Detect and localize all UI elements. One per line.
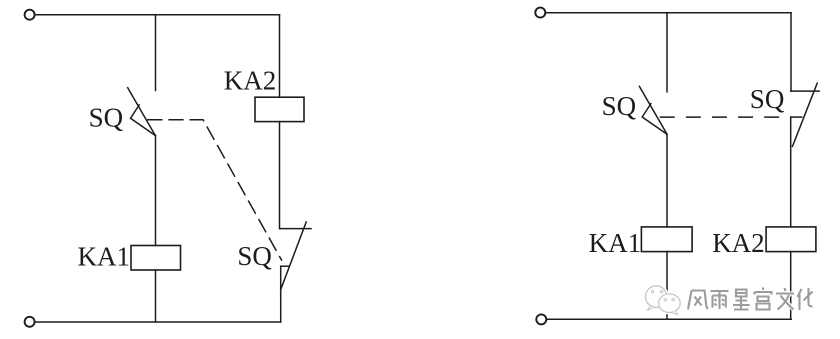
wire bottom bus (right diagram) [547, 318, 792, 320]
mechanical link dashed (left diagram) [148, 120, 282, 260]
limit switch SQ (NO) right diagram [639, 86, 667, 134]
svg-text:KA2: KA2 [712, 228, 765, 258]
coil KA2 (left diagram) [255, 97, 304, 121]
mechanical link dashed (right diagram) [661, 116, 791, 118]
coil KA1 (right diagram) [641, 227, 692, 252]
wire left branch middle (right diagram) [666, 134, 668, 227]
wire top bus (right diagram) [546, 12, 791, 14]
coil KA2 (right diagram) [766, 227, 816, 252]
terminal bottom-left (right diagram) [536, 314, 546, 324]
watermark text 风雨星宫文化 (hand-drawn strokes) [688, 288, 813, 311]
wire right branch upper (right diagram) [790, 13, 792, 91]
limit switch SQ (NO) left diagram [128, 88, 156, 136]
风 [688, 291, 708, 310]
wire right branch middle (left diagram) [279, 122, 281, 229]
文 [776, 288, 794, 310]
limit switch SQ (NC) left diagram [280, 222, 311, 290]
宫 [755, 288, 772, 310]
wire top bus (left diagram) [35, 14, 280, 16]
limit switch SQ (NC) right diagram [791, 83, 819, 146]
wire left branch upper (right diagram) [666, 13, 668, 92]
wire right branch lower (left diagram) [280, 266, 282, 322]
svg-text:KA2: KA2 [224, 65, 276, 95]
terminal top-left (right diagram) [535, 8, 545, 18]
watermark logo (chat bubbles) [646, 286, 681, 315]
svg-text:SQ: SQ [237, 241, 272, 271]
svg-text:KA1: KA1 [589, 228, 642, 258]
雨 [711, 291, 729, 309]
化 [798, 288, 813, 310]
wire left branch upper (left diagram) [155, 15, 157, 91]
svg-text:SQ: SQ [750, 84, 785, 114]
wire right branch lower (right diagram) [790, 252, 792, 320]
terminal bottom-left (left diagram) [25, 317, 35, 327]
wire bottom bus (left diagram) [35, 321, 281, 323]
星 [733, 290, 750, 310]
wire left branch lower (right diagram) [666, 252, 668, 320]
wire right branch upper (left diagram) [279, 15, 281, 98]
svg-text:KA1: KA1 [78, 241, 131, 271]
terminal top-left (left diagram) [25, 10, 35, 20]
coil KA1 (left diagram) [131, 246, 181, 271]
wire right branch middle (right diagram) [790, 117, 792, 227]
svg-text:SQ: SQ [89, 103, 124, 133]
wire left branch middle (left diagram) [155, 136, 157, 246]
svg-text:SQ: SQ [602, 91, 637, 121]
wire left branch lower (left diagram) [155, 270, 157, 322]
